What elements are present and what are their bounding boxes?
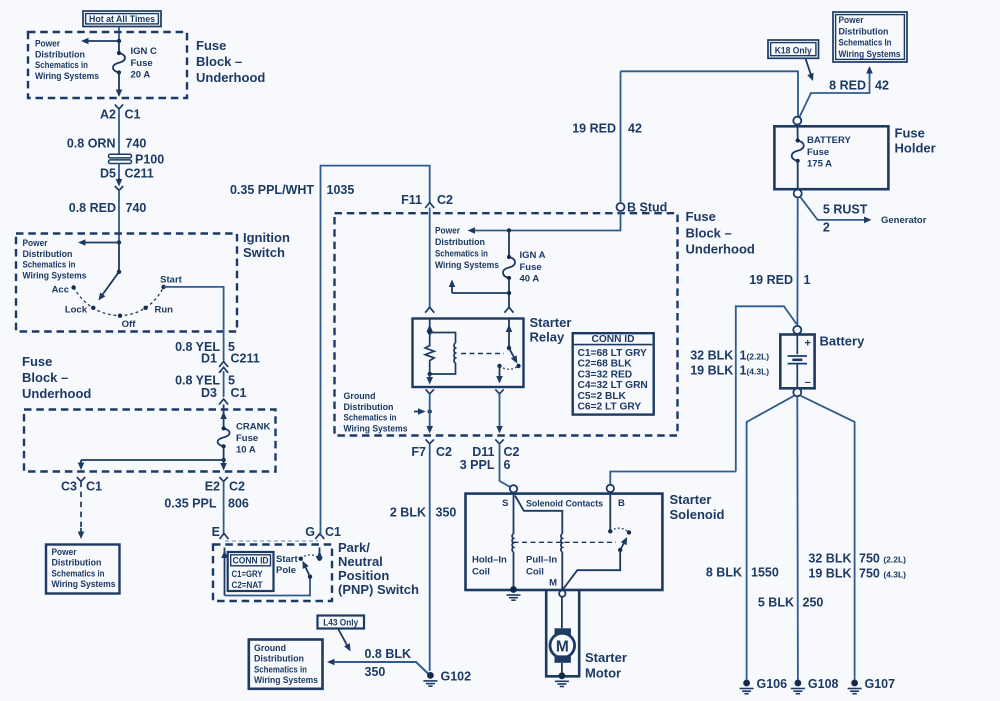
svg-text:Underhood: Underhood [196, 70, 265, 85]
CONN ID table central [573, 333, 654, 414]
svg-text:A2: A2 [100, 108, 116, 122]
svg-text:Lock: Lock [65, 305, 88, 316]
wire to B terminal [610, 472, 736, 486]
svg-text:19 RED: 19 RED [749, 273, 793, 287]
svg-text:C1: C1 [325, 525, 341, 539]
arrow to F7 wire [414, 408, 432, 415]
node junction [117, 39, 121, 43]
node junction [117, 240, 121, 244]
connector D5 C211 [100, 167, 154, 191]
wire 19 RED 1 [749, 198, 810, 327]
svg-text:Start: Start [276, 554, 298, 565]
svg-text:19 RED: 19 RED [572, 122, 616, 136]
label power distribution 2 [23, 238, 87, 281]
central fuse block underhood box [335, 213, 678, 435]
wire 3 PPL 6 [460, 444, 512, 488]
svg-text:5 RUST: 5 RUST [823, 203, 868, 217]
wire exit arrow [220, 460, 227, 471]
svg-text:F7: F7 [411, 445, 426, 459]
solenoid contact from B [608, 492, 612, 534]
label CRANK Fuse 10 A [236, 422, 270, 456]
svg-text:Distribution: Distribution [23, 249, 73, 260]
svg-text:G102: G102 [441, 670, 472, 684]
svg-text:Pole: Pole [276, 565, 296, 576]
ground distribution schematics box [249, 640, 323, 689]
svg-text:0.35 PPL/WHT: 0.35 PPL/WHT [230, 183, 314, 197]
svg-text:Wiring Systems: Wiring Systems [344, 423, 408, 434]
svg-text:C5=2 BLK: C5=2 BLK [578, 391, 627, 402]
svg-text:CONN ID: CONN ID [233, 556, 269, 566]
svg-text:750 (4.3L): 750 (4.3L) [859, 567, 906, 581]
svg-text:Schematics In: Schematics In [839, 38, 892, 49]
connector F7 C2 [411, 439, 452, 459]
svg-text:740: 740 [126, 137, 147, 151]
svg-text:Distribution: Distribution [254, 654, 304, 665]
svg-text:Starter: Starter [670, 492, 712, 507]
svg-text:2 BLK: 2 BLK [390, 506, 426, 520]
wire D11 down with arrow [496, 394, 503, 434]
svg-text:1: 1 [804, 273, 811, 287]
arrow from K18 [806, 59, 814, 82]
contact Acc [52, 285, 76, 296]
fuse holder box [774, 126, 888, 189]
ground G108 [791, 677, 839, 694]
contact Off [118, 314, 136, 331]
relay actuation dashed link [461, 353, 504, 355]
wire F7 down with arrow [426, 394, 433, 434]
battery box [780, 335, 814, 389]
svg-text:Position: Position [338, 568, 389, 583]
svg-text:C3=32 RED: C3=32 RED [578, 369, 633, 380]
svg-text:1(4.3L): 1(4.3L) [740, 364, 770, 378]
ground G102 [423, 670, 471, 687]
svg-text:Acc: Acc [52, 285, 69, 296]
relay coil entry arrow [426, 319, 433, 335]
svg-text:+: + [805, 338, 811, 350]
svg-text:D1: D1 [201, 352, 217, 366]
svg-text:Power: Power [23, 238, 48, 249]
contact G pole [317, 557, 321, 561]
label Pull-In Coil [526, 555, 557, 578]
svg-text:C3: C3 [61, 480, 77, 494]
svg-text:Neutral: Neutral [338, 554, 383, 569]
pull-in coil [515, 496, 562, 592]
svg-text:Switch: Switch [243, 245, 285, 260]
svg-text:40 A: 40 A [520, 274, 540, 285]
wire [118, 27, 120, 42]
svg-text:Starter: Starter [530, 315, 572, 330]
svg-text:Off: Off [122, 319, 137, 330]
arrow from L43 [338, 629, 351, 652]
svg-text:C6=2 LT GRY: C6=2 LT GRY [578, 402, 642, 413]
wire battery to G106 [747, 395, 795, 680]
ground G107 [848, 677, 896, 694]
wire label 19 BLK 750 [808, 567, 906, 581]
label Ignition Switch [243, 230, 290, 260]
fuse CRANK 10A [218, 426, 230, 448]
svg-text:M: M [556, 638, 569, 655]
connector G C1 [305, 525, 341, 539]
wire B stud up [620, 71, 622, 203]
wire label 5 BLK 250 [758, 596, 824, 610]
solenoid link dashed [514, 541, 617, 543]
svg-text:CONN ID: CONN ID [591, 334, 634, 345]
svg-text:Fuse: Fuse [686, 209, 716, 224]
svg-text:C1: C1 [231, 386, 247, 400]
wire battery to G107 [800, 395, 855, 680]
svg-text:G107: G107 [865, 677, 896, 691]
svg-text:B: B [618, 498, 625, 509]
svg-text:M: M [549, 578, 557, 589]
wire 0.35 PPL 806 [164, 482, 249, 535]
svg-text:IGN C: IGN C [131, 46, 158, 57]
starter solenoid box [466, 494, 663, 590]
svg-text:5 BLK: 5 BLK [758, 596, 794, 610]
svg-text:32 BLK: 32 BLK [808, 552, 851, 566]
connector A2 C1 [100, 105, 141, 122]
battery terminal bottom [793, 388, 801, 396]
contact Start [160, 275, 182, 290]
label Start Pole [276, 554, 298, 576]
terminal M [549, 578, 565, 597]
svg-text:806: 806 [228, 497, 249, 511]
label IGN A Fuse 40 A [520, 250, 546, 285]
svg-text:Generator: Generator [881, 215, 927, 226]
label Fuse Block - Underhood 2 [22, 354, 91, 401]
svg-text:250: 250 [803, 596, 824, 610]
wire [118, 243, 120, 272]
connector C3 C1 [61, 477, 102, 494]
PNP switch box [213, 545, 332, 602]
label Hot at All Times [83, 11, 161, 27]
svg-text:Hold–In: Hold–In [472, 555, 507, 566]
svg-text:C2: C2 [437, 193, 453, 207]
fuse IGN A 40A [503, 255, 515, 280]
svg-text:20 A: 20 A [131, 70, 151, 81]
svg-text:Pull–In: Pull–In [526, 555, 557, 566]
B stud [617, 201, 668, 215]
svg-text:BATTERY: BATTERY [807, 135, 851, 146]
fuse holder terminal top [793, 117, 801, 125]
label power distribution 1 [35, 39, 99, 82]
svg-text:Power: Power [839, 15, 864, 26]
terminal B [607, 485, 625, 509]
fuse IGN C 20A [113, 51, 125, 75]
svg-text:Fuse: Fuse [236, 433, 258, 444]
svg-text:0.35 PPL: 0.35 PPL [164, 497, 216, 511]
svg-text:K18 Only: K18 Only [775, 46, 813, 57]
wire E entry arrow [221, 548, 228, 596]
svg-text:C2=68 BLK: C2=68 BLK [578, 359, 633, 370]
wire [223, 446, 225, 460]
node junction [507, 228, 511, 232]
switch position arc [74, 287, 164, 316]
svg-text:C2: C2 [504, 445, 520, 459]
svg-text:8 RED: 8 RED [829, 79, 866, 93]
wire entry arrow [220, 405, 227, 429]
svg-text:Wiring Systems: Wiring Systems [23, 270, 87, 281]
branch arrow up to wiring systems [449, 280, 509, 294]
connector D1 C211 [201, 352, 260, 373]
svg-text:Schematics in: Schematics in [23, 260, 76, 271]
svg-text:32 BLK: 32 BLK [690, 349, 733, 363]
connector E [212, 525, 229, 539]
svg-text:Fuse: Fuse [895, 126, 925, 141]
svg-text:Wiring Systems: Wiring Systems [254, 675, 318, 686]
wire [508, 231, 510, 258]
svg-text:C211: C211 [231, 352, 260, 366]
connector F11 C2 [401, 193, 453, 208]
svg-text:Schematics in: Schematics in [35, 60, 88, 71]
label Starter Motor [585, 650, 627, 681]
svg-text:P100: P100 [135, 153, 164, 167]
svg-text:Power: Power [52, 547, 77, 558]
contact Run [143, 305, 173, 316]
starter motor M [550, 628, 575, 663]
contact start pole [299, 557, 303, 561]
svg-text:42: 42 [875, 79, 889, 93]
svg-text:Relay: Relay [530, 330, 565, 345]
svg-text:Schematics in: Schematics in [254, 664, 307, 675]
svg-text:Hot at All Times: Hot at All Times [89, 14, 155, 25]
wire 0.8 BLK 350 to G102 [327, 647, 429, 679]
svg-text:Fuse: Fuse [22, 354, 52, 369]
svg-text:19 BLK: 19 BLK [690, 364, 733, 378]
wire 2 BLK 350 [390, 444, 457, 671]
svg-text:Fuse: Fuse [807, 147, 829, 158]
svg-text:C1: C1 [86, 480, 102, 494]
svg-text:10 A: 10 A [236, 445, 256, 456]
CONN ID table PNP [228, 552, 274, 591]
svg-text:G106: G106 [757, 677, 788, 691]
svg-text:Ignition: Ignition [243, 230, 290, 245]
svg-text:Solenoid: Solenoid [670, 507, 725, 522]
svg-text:0.8 RED: 0.8 RED [69, 201, 116, 215]
hold-in coil [512, 493, 513, 589]
svg-text:Battery: Battery [820, 334, 866, 349]
label L43 Only [318, 616, 365, 629]
svg-text:G: G [305, 525, 315, 539]
connector E2 C2 [205, 477, 245, 494]
svg-text:350: 350 [365, 665, 386, 679]
wire 8 RED 42 with arrow [800, 66, 889, 117]
wire battery to G108 [796, 396, 799, 680]
relay resistor [425, 333, 434, 375]
svg-text:Power: Power [35, 39, 60, 50]
svg-text:Motor: Motor [585, 666, 621, 681]
svg-text:Distribution: Distribution [435, 237, 485, 248]
svg-text:8 BLK: 8 BLK [706, 566, 742, 580]
svg-text:750 (2.2L): 750 (2.2L) [859, 552, 906, 566]
svg-text:Wiring Systems: Wiring Systems [435, 260, 499, 271]
wire contact to M [563, 550, 620, 589]
connector D11 C2 [472, 439, 519, 459]
svg-text:42: 42 [628, 122, 642, 136]
wire M to motor [561, 597, 563, 629]
svg-text:Fuse: Fuse [131, 58, 153, 69]
svg-text:C1=68 LT GRY: C1=68 LT GRY [578, 348, 648, 359]
wire F11 down [429, 208, 431, 308]
svg-text:6: 6 [504, 458, 511, 472]
wire branch to solenoid B [736, 306, 797, 471]
wire [508, 278, 510, 308]
svg-text:Fuse: Fuse [196, 38, 226, 53]
label Starter Relay [530, 315, 572, 345]
wire 19 RED 42 horizontal run [572, 71, 798, 135]
svg-text:Power: Power [435, 226, 460, 237]
relay coil [428, 333, 456, 377]
dashed wire [80, 482, 82, 528]
arrow into box [78, 528, 85, 539]
svg-text:Starter: Starter [585, 650, 627, 665]
svg-text:B Stud: B Stud [627, 201, 667, 215]
label BATTERY Fuse 175 A [807, 135, 851, 170]
wire G entry arrow [316, 548, 323, 559]
svg-text:Block –: Block – [196, 54, 242, 69]
svg-text:1(2.2L): 1(2.2L) [740, 349, 770, 363]
label Fuse Block - Underhood 3 [686, 209, 755, 257]
svg-text:Wiring Systems: Wiring Systems [52, 579, 116, 590]
svg-text:Ground: Ground [254, 643, 286, 654]
svg-text:0.8 ORN: 0.8 ORN [67, 137, 116, 151]
svg-text:2: 2 [823, 221, 830, 235]
svg-text:F11: F11 [401, 193, 422, 207]
wire 0.35 PPL/WHT 1035 [230, 166, 430, 536]
wire 5 RUST 2 to generator [800, 197, 927, 235]
solenoid dotted throw arc [610, 528, 629, 532]
wire [118, 164, 120, 181]
svg-text:Schematics in: Schematics in [435, 249, 488, 260]
solenoid moving contact [618, 530, 631, 552]
svg-text:Block –: Block – [686, 226, 732, 241]
svg-text:CRANK: CRANK [236, 422, 270, 433]
switch blade [303, 561, 313, 579]
svg-text:Run: Run [155, 305, 174, 316]
fuse BATTERY 175A [792, 125, 804, 190]
battery symbol [788, 335, 811, 389]
starter relay box [413, 319, 524, 388]
dotted throw arc [301, 555, 320, 559]
svg-text:19 BLK: 19 BLK [808, 567, 851, 581]
contact Lock [65, 305, 96, 316]
svg-text:C211: C211 [125, 167, 154, 181]
connector D3 C1 [201, 386, 247, 404]
label Starter Solenoid [670, 492, 725, 522]
label Hold-In Coil [472, 555, 507, 578]
wire label 32 BLK 750 [808, 552, 906, 566]
svg-text:Underhood: Underhood [686, 242, 755, 257]
relay contact blade [509, 348, 521, 368]
ground G106 [740, 677, 788, 694]
power distribution schematics box top right [833, 12, 907, 62]
label ground distribution 1 [344, 391, 408, 434]
fuse block underhood box 2 [24, 410, 276, 472]
svg-text:C1=GRY: C1=GRY [232, 569, 263, 579]
svg-text:Fuse: Fuse [520, 262, 542, 273]
motor ground [555, 663, 569, 687]
svg-text:Wiring Systems: Wiring Systems [35, 71, 99, 82]
motor frame wires [546, 591, 579, 677]
relay contact pole [496, 364, 503, 384]
solenoid internal ground [510, 586, 517, 593]
ignition switch box [16, 234, 237, 332]
svg-text:Solenoid Contacts: Solenoid Contacts [526, 499, 603, 510]
wire label 0.8 YEL 5 lower [175, 371, 235, 397]
svg-text:C1: C1 [125, 108, 141, 122]
svg-text:D5: D5 [100, 167, 116, 181]
svg-text:1550: 1550 [751, 566, 779, 580]
svg-text:Schematics in: Schematics in [344, 413, 397, 424]
wire arrow to power distribution [78, 239, 119, 246]
svg-text:Holder: Holder [895, 141, 936, 156]
svg-text:–: – [805, 377, 811, 389]
svg-text:(PNP) Switch: (PNP) Switch [338, 582, 419, 597]
svg-text:E2: E2 [205, 480, 220, 494]
svg-text:Start: Start [160, 275, 182, 286]
svg-text:175 A: 175 A [807, 159, 832, 170]
svg-text:Wiring Systems: Wiring Systems [839, 49, 901, 60]
svg-text:Distribution: Distribution [839, 26, 889, 37]
svg-text:IGN A: IGN A [520, 250, 546, 261]
terminal S [502, 485, 517, 509]
fuse block underhood box 1 [28, 32, 187, 98]
relay contact entry arrow [506, 319, 513, 351]
svg-text:G108: G108 [808, 677, 839, 691]
svg-text:Distribution: Distribution [344, 402, 394, 413]
svg-text:Schematics in: Schematics in [52, 568, 105, 579]
label Park Neutral Position PNP Switch [338, 540, 419, 597]
battery terminal top [793, 326, 801, 334]
wire [118, 41, 120, 53]
svg-text:Ground: Ground [344, 391, 376, 402]
wire branch to C3 [78, 460, 224, 470]
wire arrow to power distribution [81, 38, 119, 45]
wire from B stud to IGN A [468, 211, 621, 234]
svg-text:L43 Only: L43 Only [323, 617, 359, 628]
node junction [507, 291, 511, 295]
wire label 0.8 YEL 5 upper [175, 340, 235, 354]
svg-text:0.8 BLK: 0.8 BLK [365, 647, 412, 661]
wire labels 32 BLK 19 BLK [690, 349, 769, 378]
fuse holder terminal bottom [794, 190, 802, 198]
label Fuse Holder [895, 126, 936, 156]
switch wiper arrow [99, 270, 122, 301]
svg-text:E: E [212, 525, 220, 539]
svg-text:D11: D11 [472, 445, 494, 459]
svg-text:Coil: Coil [472, 567, 490, 578]
svg-text:C2=NAT: C2=NAT [232, 580, 263, 590]
svg-text:Distribution: Distribution [35, 49, 85, 60]
power distribution schematics box [46, 545, 120, 594]
svg-text:C2: C2 [436, 445, 452, 459]
svg-text:C4=32 LT GRN: C4=32 LT GRN [578, 380, 648, 391]
svg-text:1035: 1035 [327, 183, 355, 197]
svg-text:Underhood: Underhood [22, 386, 91, 401]
svg-text:Coil: Coil [526, 567, 544, 578]
svg-text:D3: D3 [201, 386, 217, 400]
svg-text:350: 350 [436, 506, 457, 520]
wire from Start [164, 287, 224, 361]
wire with down arrow [116, 73, 123, 98]
grommet P100 [109, 153, 165, 167]
mechanical link dashed [225, 540, 318, 542]
svg-text:3 PPL: 3 PPL [460, 458, 495, 472]
svg-text:Block –: Block – [22, 370, 68, 385]
wire label 8 BLK 1550 [706, 566, 779, 580]
relay dotted throw arc [500, 366, 519, 369]
svg-text:Distribution: Distribution [52, 558, 102, 569]
label power distribution 3 [435, 226, 499, 272]
